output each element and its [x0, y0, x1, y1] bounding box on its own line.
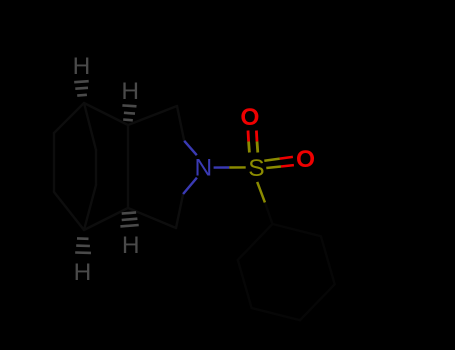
svg-text:S: S — [248, 155, 264, 182]
hash wedge H4 to C7 — [75, 238, 91, 253]
svg-text:N: N — [195, 155, 213, 182]
S=O top double bond line 2 red part — [255, 131, 258, 142]
bond C4-C5 — [54, 103, 84, 133]
bond C3a-C7a fusion — [127, 125, 129, 208]
S=O top double bond line 2 olive part — [256, 142, 260, 153]
svg-text:H: H — [73, 53, 91, 80]
S=O right double bond lower line red part — [281, 165, 294, 166]
bond S-Cipso dark half — [265, 202, 273, 224]
bond C7-C3a — [84, 208, 128, 230]
hash wedge H2 to C7a — [122, 105, 136, 120]
svg-text:H: H — [74, 259, 92, 286]
carbon skeleton: bicyclo[2.2.2]octane fused ring core — [54, 103, 184, 230]
svg-text:H: H — [122, 232, 140, 259]
bridge C9-C7 — [84, 185, 96, 230]
S=O top double bond line 1 olive part — [247, 142, 251, 153]
svg-text:O: O — [240, 104, 259, 131]
bond C7a-C1 — [128, 106, 177, 125]
bond C3-N dark half — [176, 194, 183, 228]
hash wedge H3 to C3a — [120, 212, 138, 226]
N-S bond olive half — [229, 166, 245, 169]
S=O right double bond upper line red part — [280, 157, 293, 159]
bridge C8-C9 — [95, 150, 97, 185]
N-C1 bond — [184, 141, 197, 155]
phenyl ring — [238, 224, 335, 320]
N-S bond blue half — [214, 166, 230, 169]
N-C3 bond blue half — [183, 178, 197, 194]
S=O right double bond lower line olive part — [266, 167, 281, 169]
bond C7a-C4 — [84, 103, 128, 125]
svg-text:H: H — [121, 78, 139, 105]
S=O top double bond line 1 red part — [247, 131, 250, 142]
bond C3a-C3 — [128, 208, 176, 228]
S=O right double bond upper line olive part — [264, 159, 280, 161]
svg-text:O: O — [296, 146, 315, 173]
bond C6-C7 — [54, 192, 84, 230]
hash wedge H1 to C4 — [74, 81, 89, 95]
bridge C4-C8 — [84, 103, 96, 150]
bond C1-N dark half — [177, 106, 184, 141]
bond C5-C6 — [53, 133, 55, 192]
S-Cipso bond olive half — [257, 182, 265, 203]
